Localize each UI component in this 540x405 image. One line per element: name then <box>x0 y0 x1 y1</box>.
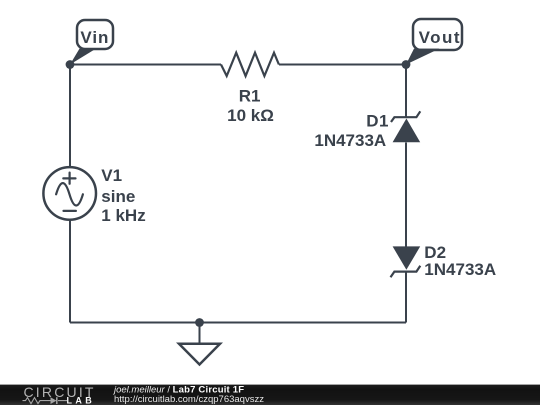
svg-text:V1: V1 <box>101 166 122 185</box>
svg-text:Vin: Vin <box>80 28 109 47</box>
svg-text:R1: R1 <box>239 86 261 105</box>
svg-text:Vout: Vout <box>419 28 462 47</box>
svg-text:1N4733A: 1N4733A <box>424 260 496 279</box>
svg-text:LAB: LAB <box>67 396 96 405</box>
svg-text:1N4733A: 1N4733A <box>314 131 386 150</box>
svg-text:D1: D1 <box>366 112 389 131</box>
svg-text:1 kHz: 1 kHz <box>101 206 145 225</box>
svg-text:sine: sine <box>101 187 135 206</box>
svg-text:10 kΩ: 10 kΩ <box>227 106 274 125</box>
svg-text:http://circuitlab.com/czqp763a: http://circuitlab.com/czqp763aqvszz <box>114 394 264 405</box>
